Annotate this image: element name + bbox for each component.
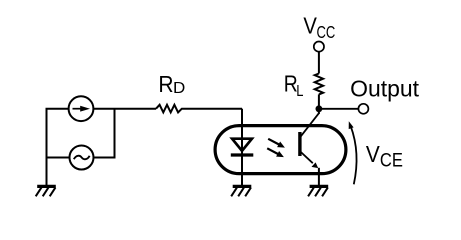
svg-text:V: V [366, 141, 380, 167]
svg-text:R: R [158, 71, 173, 97]
svg-text:V: V [303, 13, 317, 39]
svg-text:CE: CE [380, 150, 403, 172]
svg-text:Output: Output [350, 76, 420, 102]
svg-text:CC: CC [317, 22, 336, 42]
svg-text:D: D [173, 80, 185, 97]
svg-text:L: L [296, 83, 303, 100]
